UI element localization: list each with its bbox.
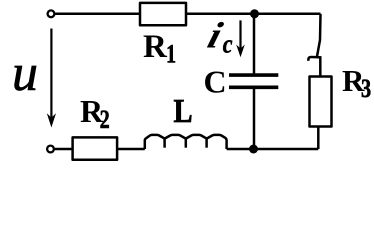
- current arrow i_c shaft: [239, 20, 241, 52]
- node A junction dot: [250, 9, 259, 18]
- resistor R2: [73, 137, 118, 159]
- current arrow i_c head: [236, 45, 245, 58]
- inductor L coil: [145, 135, 227, 149]
- wire node A to top-right corner: [255, 13, 321, 16]
- voltage arrow u head: [47, 113, 56, 127]
- switch S blade: [317, 14, 321, 57]
- wire R2 to inductor: [117, 148, 145, 151]
- label i_c: [203, 15, 227, 56]
- wire top-left to R1: [55, 13, 140, 16]
- inductor valley tick 1: [163, 139, 166, 148]
- switch S contact hook: [308, 57, 321, 61]
- wire terminal to R2: [55, 148, 73, 151]
- inductor valley tick 2: [185, 139, 188, 148]
- label R2 subscript 2: [100, 106, 110, 135]
- wire inductor to node B: [227, 148, 254, 151]
- svg-text:C: C: [204, 64, 227, 100]
- voltage arrow u shaft: [50, 29, 52, 123]
- wire capacitor to node B: [253, 89, 256, 149]
- node B junction dot: [249, 145, 258, 154]
- wire bottom rail right segment: [254, 148, 319, 151]
- capacitor C bottom plate: [229, 86, 278, 90]
- svg-text:2: 2: [100, 106, 110, 135]
- label R3 subscript 3: [361, 74, 371, 103]
- resistor R1: [140, 3, 186, 25]
- svg-text:R: R: [143, 29, 168, 65]
- terminal top-left: [48, 10, 55, 17]
- terminal bottom-left: [47, 146, 54, 153]
- label i_c subscript c: [223, 31, 233, 59]
- wire node A to capacitor: [253, 14, 256, 74]
- svg-text:u: u: [12, 45, 38, 102]
- label L: [174, 92, 193, 130]
- label R1 subscript 1: [166, 40, 176, 69]
- wire switch to R3: [319, 57, 322, 76]
- svg-text:1: 1: [166, 40, 176, 69]
- inductor valley tick 3: [205, 139, 208, 148]
- svg-text:L: L: [174, 92, 193, 130]
- svg-text:c: c: [223, 31, 233, 59]
- wire R3 to bottom rail: [317, 127, 320, 150]
- capacitor C top plate: [229, 73, 278, 77]
- wire R1 to node A: [186, 13, 255, 16]
- resistor R3: [310, 77, 332, 127]
- svg-text:3: 3: [361, 74, 371, 103]
